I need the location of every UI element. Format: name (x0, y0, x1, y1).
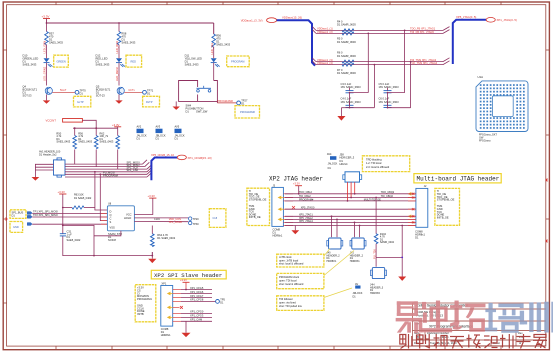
wire LED to Q5 (118, 63, 120, 86)
svg-text:SAE5_3433: SAE5_3433 (49, 41, 63, 45)
callout box jtag signals (247, 188, 270, 225)
power +3.3V pullup rail (112, 123, 121, 128)
IC U8 SPI flash (107, 203, 134, 242)
switch loop wires (179, 81, 218, 102)
svg-text:D1: D1 (12, 214, 16, 218)
svg-text:VSS: VSS (110, 226, 115, 230)
spi slave labels group1 (190, 286, 204, 302)
U8 left pin stubs red (101, 213, 107, 224)
border zone ticks right (546, 50, 549, 303)
svg-text:1-2: TDI local: 1-2: TDI local (366, 161, 382, 165)
wire col2 drop (118, 23, 120, 32)
LED D11 (185, 54, 220, 67)
J10 pin drops (348, 182, 355, 201)
watermark line1 char pei (485, 303, 520, 333)
svg-text:PROGRAM#: PROGRAM# (299, 198, 314, 201)
svg-text:JRLOCK: JRLOCK (353, 292, 363, 295)
J2 pin marks red (412, 193, 414, 224)
svg-text:XP1_CAM: XP1_CAM (190, 318, 202, 322)
svg-text:XP1_CFG5: XP1_CFG5 (190, 286, 204, 290)
svg-text:SAE5_3433: SAE5_3433 (185, 63, 199, 67)
svg-text:AV3: AV3 (156, 125, 161, 129)
resistor R56 (212, 34, 231, 48)
svg-text:shut: local & offboard: shut: local & offboard (279, 262, 304, 266)
XP3 pin stubs (283, 194, 293, 226)
resistor R6 row2 (337, 51, 356, 76)
BGA center window (492, 96, 513, 117)
transistor Q5 (96, 85, 124, 98)
svg-text:TDI follower: TDI follower (279, 297, 293, 301)
transistor Q4 (23, 85, 53, 98)
watermark line2 outline characters (400, 334, 547, 349)
watermark line1 char xun (520, 302, 553, 333)
svg-text:SAE5_0403: SAE5_0403 (78, 140, 92, 144)
net labels left ports (33, 210, 58, 217)
ground spi slave (182, 321, 191, 337)
wire drop to R104 (375, 198, 377, 234)
jtag wire 4 (285, 208, 417, 210)
svg-text:D1: D1 (156, 136, 160, 140)
port XP1_CFGB (177, 155, 211, 160)
svg-text:C18: C18 (213, 217, 218, 220)
XP2 yellow pin arrows (168, 292, 173, 318)
svg-text:HDR8X1: HDR8X1 (327, 260, 337, 263)
header J2 (408, 185, 428, 239)
power +3.3V spi slave (180, 278, 190, 282)
jtag wire 3 PROG (285, 200, 417, 202)
spi slave labels group2 (190, 310, 204, 322)
jumper AV5 (175, 125, 185, 141)
svg-text:+3.3V: +3.3V (180, 278, 187, 282)
wire top rail (47, 22, 214, 24)
power +3.3V u8 left (58, 190, 67, 234)
callout box program clock (277, 251, 354, 289)
jtag wire 8 (285, 225, 417, 227)
bus entry stubs row1 (313, 27, 317, 65)
capacitor C4 (341, 97, 362, 108)
resistor R56b (78, 131, 98, 149)
svg-text:SAE5_3433: SAE5_3433 (216, 43, 230, 47)
wire drops to J40 (332, 216, 360, 237)
svg-text:SWT_EW: SWT_EW (196, 110, 208, 114)
svg-text:VDDaux1_(2): VDDaux1_(2) (317, 30, 333, 34)
wire U8 VCC to +3.3V (134, 194, 156, 215)
svg-text:HDR8x1: HDR8x1 (161, 333, 171, 337)
svg-text:SAE5_3433: SAE5_3433 (23, 63, 37, 67)
svg-text:MULTI/TDI_OE: MULTI/TDI_OE (364, 198, 381, 201)
svg-text:HD2x4: HD2x4 (340, 162, 348, 166)
title block text (414, 304, 524, 345)
header XP2 (161, 282, 173, 337)
callout box red (126, 55, 142, 67)
svg-text:open: via fixed: open: via fixed (279, 301, 296, 305)
svg-text:FFSGxxxx: FFSGxxxx (479, 139, 491, 142)
svg-text:VCC: VCC (126, 212, 132, 216)
svg-text:PROGRAM clock: PROGRAM clock (279, 275, 300, 279)
svg-text:XP1_CFG3: XP1_CFG3 (190, 314, 204, 318)
svg-text:XP1_CFG7: XP1_CFG7 (190, 294, 204, 298)
testpoint TP27 (237, 98, 248, 105)
wire U8 HOLD to test points (134, 217, 188, 219)
section title multi-board (414, 174, 501, 183)
svg-text:XP1_JTAG(0..5): XP1_JTAG(0..5) (497, 18, 517, 22)
U1A labels (479, 133, 497, 142)
svg-text:PROGRAM#: PROGRAM# (240, 110, 255, 114)
net labels SPI bundle (103, 161, 140, 178)
svg-text:16V SAMC_0603: 16V SAMC_0603 (341, 100, 362, 104)
capacitor C5 (379, 82, 400, 93)
svg-text:XP1_CFGB: XP1_CFGB (169, 221, 182, 224)
svg-text:TP30: TP30 (193, 223, 200, 226)
svg-text:JALOCK: JALOCK (328, 163, 338, 166)
svg-text:2-3: local & offboard: 2-3: local & offboard (366, 165, 390, 169)
ground switch (173, 101, 180, 110)
svg-text:D1 Header_5x2: D1 Header_5x2 (39, 154, 57, 157)
wire R104 down to J4H (375, 244, 377, 267)
wires AV1 left to ground (35, 164, 53, 177)
svg-text:LED_GRN: LED_GRN (43, 41, 47, 54)
svg-text:16V SAMC_0603: 16V SAMC_0603 (379, 85, 400, 89)
svg-text:SAE5_3433: SAE5_3433 (122, 41, 136, 45)
node junction LED rail col2 (118, 22, 120, 24)
svg-text:HOLD: HOLD (124, 216, 131, 220)
svg-text:XP1_CFG0: XP1_CFG0 (190, 310, 204, 314)
svg-text:+3.3V: +3.3V (148, 194, 156, 198)
jumper JRLOCK (353, 283, 363, 299)
wire PROGRAM to TP27 (216, 101, 218, 103)
callout box yellow led (227, 56, 250, 67)
svg-text:D1: D1 (147, 91, 151, 95)
jtag wire 7 (285, 221, 417, 223)
svg-text:XP5_JTAG4: XP5_JTAG4 (299, 220, 313, 223)
svg-text:D1: D1 (186, 110, 190, 114)
wire vccint to rail (73, 120, 118, 128)
svg-text:AV4: AV4 (327, 153, 332, 156)
callout box tp71 (143, 96, 160, 107)
bus XP5_JTAG (453, 20, 486, 64)
svg-text:16V SAMC_0603: 16V SAMC_0603 (379, 100, 400, 104)
jumper AV3 (156, 125, 166, 141)
svg-text:INITB: INITB (137, 312, 144, 316)
cap link wires (341, 93, 410, 116)
svg-text:VDDaux1_(3..3V): VDDaux1_(3..3V) (241, 19, 263, 23)
svg-text:D1: D1 (80, 91, 84, 95)
red X no-connect mark xp3 (292, 206, 295, 209)
callout box TRD blocking (362, 156, 409, 172)
bus VDDaux horizontal+vertical (277, 20, 315, 65)
sheet entry ports blue (27, 212, 32, 226)
spi slave wires group2 (181, 313, 212, 321)
callout box green (54, 55, 69, 67)
port VDDaux1 (241, 18, 277, 23)
wires left ports to U8 (32, 213, 107, 224)
svg-text:S: S (110, 220, 112, 224)
resistor R57 (45, 32, 64, 45)
junction R104 gnd (401, 257, 403, 259)
section title XP2 JTAG header (269, 175, 323, 182)
svg-text:GND: GND (13, 225, 19, 229)
svg-text:Multi-board JTAG header: Multi-board JTAG header (417, 176, 500, 183)
svg-text:+3.3V: +3.3V (42, 15, 50, 19)
svg-text:LED_YEL: LED_YEL (210, 42, 214, 54)
power stem to pin1 (185, 282, 187, 289)
jumper block J40 (327, 238, 343, 263)
wire drop d (410, 62, 412, 108)
testpoint TP20 (189, 217, 200, 221)
testpoint TP5 (216, 298, 226, 304)
wire col2 resistor to LED (118, 45, 120, 58)
svg-text:shut: TDI pulled low: shut: TDI pulled low (279, 304, 302, 308)
svg-text:+3.3V: +3.3V (293, 182, 300, 186)
capacitor C31 loop (60, 225, 94, 255)
svg-text:U1A: U1A (478, 75, 484, 79)
XP2 pin stubs red (173, 290, 181, 322)
svg-text:D1 SAE5_0402: D1 SAE5_0402 (157, 236, 175, 240)
svg-text:GxTP: GxTP (77, 100, 84, 104)
svg-text:D1 SAMR_0603: D1 SAMR_0603 (337, 40, 356, 44)
svg-text:SOT-23: SOT-23 (96, 94, 105, 98)
jumper AV2 (137, 125, 147, 141)
svg-text:XP5_JTAG0: XP5_JTAG0 (301, 207, 315, 210)
svg-text:TCK_TMS XP1_JTAG4: TCK_TMS XP1_JTAG4 (410, 61, 438, 65)
svg-text:LED_RED2: LED_RED2 (115, 67, 119, 81)
header AV1 (39, 150, 65, 177)
jumper AV4 (327, 153, 338, 170)
jumper block J4H (370, 268, 387, 295)
svg-text:SOIC8: SOIC8 (108, 238, 116, 242)
svg-text:SAE5_0403: SAE5_0403 (56, 140, 70, 144)
wire col1 drop (46, 23, 48, 32)
wire row2b (316, 64, 443, 66)
svg-text:16V SAMC_0603: 16V SAMC_0603 (341, 85, 362, 89)
wire R104 gnd link (376, 256, 402, 258)
BGA ball grid (480, 84, 525, 129)
svg-text:D1 SAMR_0603: D1 SAMR_0603 (337, 71, 356, 75)
resistor R4 row1 (337, 19, 356, 44)
wire Q4 base to TP70 (52, 91, 75, 93)
ground jtag right (398, 277, 406, 281)
svg-text:bCTx: bCTx (129, 88, 136, 92)
svg-text:shut: local & offboard: shut: local & offboard (279, 282, 304, 286)
ground caps (337, 116, 345, 121)
wire pullup rail drops (75, 128, 118, 135)
svg-text:D1 SAMR_0603: D1 SAMR_0603 (337, 23, 356, 27)
svg-text:TDI_CBQ2: TDI_CBQ2 (381, 195, 394, 198)
svg-text:D1: D1 (137, 136, 141, 140)
svg-text:HDR8X1: HDR8X1 (350, 260, 360, 263)
svg-text:PROGRAM1: PROGRAM1 (137, 297, 152, 301)
jtag wire 1 TDO (285, 193, 417, 195)
svg-text:open: TDI local: open: TDI local (279, 279, 297, 283)
svg-text:+3.3V: +3.3V (112, 123, 120, 127)
svg-text:TDI_FB XP1_JTAG5: TDI_FB XP1_JTAG5 (410, 30, 434, 34)
svg-text:SP1_CS0: SP1_CS0 (127, 168, 139, 172)
wire drop b (404, 30, 406, 92)
testpoint TP30 (189, 221, 200, 226)
svg-text:AV2: AV2 (137, 125, 142, 129)
ground col2 (115, 94, 122, 103)
svg-text:INITB_OE: INITB_OE (249, 215, 261, 219)
ground AV1 (32, 177, 40, 181)
yellow arrows J2 pins (409, 193, 414, 218)
resistor R50 (56, 131, 76, 149)
svg-text:D: D (110, 210, 112, 214)
svg-text:VCCINT: VCCINT (46, 119, 57, 123)
watermark line1 char tuo (450, 301, 485, 332)
svg-text:D1: D1 (415, 235, 419, 239)
jtag wire 5 (285, 215, 417, 217)
resistor R62 (100, 131, 120, 149)
svg-text:TDO_CBQ2: TDO_CBQ2 (381, 191, 395, 194)
svg-text:TRD blocking: TRD blocking (366, 158, 382, 162)
svg-text:D1: D1 (175, 136, 179, 140)
left port yellow box GND (10, 222, 23, 233)
header J10 (340, 152, 362, 182)
wire drop a (367, 33, 369, 92)
wire row1b (316, 32, 443, 34)
svg-text:SOT-23: SOT-23 (23, 94, 32, 98)
XP3 pin arrows yellow (279, 196, 284, 220)
wire drop to gnd right (401, 226, 403, 277)
svg-text:STOPENB_OE: STOPENB_OE (249, 197, 267, 201)
LED D10 (23, 54, 53, 67)
svg-text:AV5: AV5 (175, 125, 180, 129)
title block frame (413, 303, 546, 346)
testpoint TP70 (75, 88, 86, 95)
port XP1_JTAG (486, 18, 517, 23)
svg-text:XP1_CFGB[15..10]: XP1_CFGB[15..10] (188, 156, 212, 160)
svg-text:XP5_CFGB_15..10: XP5_CFGB_15..10 (151, 153, 175, 157)
svg-text:XP1_CFG8: XP1_CFG8 (190, 298, 204, 302)
svg-text:GREEN: GREEN (57, 60, 66, 64)
resistor R58 (117, 32, 136, 45)
svg-text:SAMR_0402: SAMR_0402 (380, 241, 395, 244)
callout box c18 (209, 209, 226, 228)
callout box tp70 (74, 96, 91, 107)
red X no connect spi (180, 306, 183, 309)
capacitor C3 (341, 82, 362, 93)
spi slave wires group1 (181, 290, 216, 302)
jtag net labels left (299, 191, 315, 223)
ground jtag (291, 226, 299, 235)
border zone ticks left (3, 50, 6, 303)
watermark line1 char yi (396, 301, 423, 333)
wire drops from cfg bundle to U8 (95, 172, 108, 221)
svg-text:INITB_OE: INITB_OE (437, 215, 449, 219)
border zone ticks bottom (56, 346, 501, 350)
wire col3 drop (213, 23, 215, 34)
svg-text:5GxT: 5GxT (60, 88, 67, 92)
wire drop c (373, 65, 375, 108)
svg-text:SAE5_0403: SAE5_0403 (100, 140, 114, 144)
callout box tdi follower (277, 288, 352, 310)
bus entry stubs into JTAG bus (443, 27, 450, 65)
power bar VCCINT (63, 119, 83, 123)
jtag net labels right (364, 191, 395, 201)
svg-text:HDR8x1: HDR8x1 (273, 234, 283, 238)
svg-text:D1 SAE5_0402: D1 SAE5_0402 (74, 197, 92, 200)
svg-text:STOPENB_OE: STOPENB_OE (437, 198, 455, 202)
svg-text:PROGRAMA: PROGRAMA (103, 173, 118, 177)
resistor R64 (151, 226, 176, 247)
wire row2a (316, 61, 443, 63)
power +3.3V jtag (293, 182, 302, 194)
svg-text:HDR3X6: HDR3X6 (370, 292, 380, 295)
svg-text:LED_RED: LED_RED (115, 41, 119, 53)
svg-text:Q: Q (110, 213, 112, 217)
wire U8 ground net (94, 252, 152, 256)
wire bundle AV1 to bus (65, 164, 147, 177)
resistor R104 (374, 233, 394, 244)
jtag wire 2 TDI (285, 197, 417, 199)
bus entry stubs cfg (143, 160, 152, 177)
capacitor C6 (379, 97, 400, 108)
svg-text:VDDaux1_(4): VDDaux1_(4) (317, 61, 333, 65)
border center marks (red) (6, 178, 548, 243)
ground col1 (43, 94, 50, 103)
callout box jxtb clock (277, 249, 330, 268)
watermark line1 char di (421, 301, 452, 333)
svg-text:SAE5_3433: SAE5_3433 (96, 63, 110, 67)
svg-text:PROGRAM: PROGRAM (231, 60, 244, 64)
svg-text:AV: AV (355, 283, 358, 286)
power +3.3V rail symbol (42, 15, 51, 24)
svg-text:TDO_CBL2: TDO_CBL2 (299, 191, 313, 194)
wire Q5 base to TP71 (124, 91, 142, 93)
jtag wire 6 (285, 218, 417, 220)
left port yellow box 1 (10, 210, 26, 219)
svg-text:XP1_CFG6: XP1_CFG6 (190, 290, 204, 294)
wire row1a (316, 29, 443, 31)
svg-text:TP20: TP20 (193, 218, 200, 221)
callout box spi signals (135, 285, 156, 322)
svg-text:D1 SAMR_0603: D1 SAMR_0603 (337, 54, 356, 58)
wire LED to switch loop (213, 63, 215, 81)
border zone ticks top (56, 2, 501, 5)
cap junction dots (349, 92, 389, 109)
svg-text:PROGRAM#: PROGRAM# (218, 99, 234, 103)
component U1A outline (476, 75, 528, 132)
wire col3 resistor to LED (213, 47, 215, 58)
wire col1 resistor to LED (46, 45, 48, 58)
svg-text:C: C (110, 216, 112, 220)
svg-text:XP2 JTAG header: XP2 JTAG header (269, 175, 323, 182)
svg-text:C104: C104 (154, 218, 160, 221)
testpoint TP71 (143, 88, 154, 95)
callout box program tp (235, 106, 260, 118)
svg-text:LED_GRN2: LED_GRN2 (43, 66, 47, 81)
callout box multi signals (435, 188, 460, 225)
resistor drops to bundle (75, 150, 118, 170)
svg-text:RED: RED (131, 60, 137, 64)
LED D12 (96, 54, 126, 67)
ground R64 (148, 252, 156, 263)
svg-text:+3.3V: +3.3V (58, 190, 66, 194)
svg-text:XP2 SPI Slave header: XP2 SPI Slave header (154, 272, 222, 279)
bus XP5_CFGB (151, 158, 177, 181)
wire LED to Q4 (46, 63, 48, 86)
jumper block J41 (350, 238, 366, 263)
svg-text:VDDaux(15..26): VDDaux(15..26) (282, 16, 302, 20)
svg-text:XP5_JTAG(0..5): XP5_JTAG(0..5) (456, 15, 476, 19)
pushbutton SW4 (186, 86, 212, 114)
svg-text:RxTP: RxTP (146, 100, 153, 104)
svg-text:SAE5_0402: SAE5_0402 (67, 238, 81, 242)
header XP3 (272, 185, 284, 238)
resistor R63 horizontal (63, 194, 95, 210)
wire U8 bottom drop (94, 231, 121, 236)
title block lines over watermark (413, 309, 546, 340)
